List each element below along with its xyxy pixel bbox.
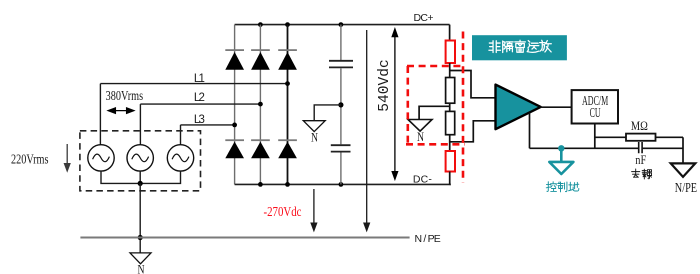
wire DC+ top rail [235,24,450,26]
svg-text:L2: L2 [194,92,205,104]
diode D1 top (cathode bar) [225,49,244,51]
svg-text:L1: L1 [194,73,205,85]
wire divider mid to ground N [419,106,450,119]
wire control ground bus [530,147,684,149]
wire neutral bus below sources [101,171,181,183]
resistor Rd2 (divider lower) [446,111,455,134]
svg-text:DC-: DC- [413,173,433,185]
diode D6 bottom (cathode bar) [278,139,297,141]
node dot cap midpoint [338,102,343,107]
wire cap midpoint to ground N [314,105,341,121]
op-amp U1 [496,85,541,130]
svg-text:DC+: DC+ [414,12,434,24]
node dot L1 to col3 [285,81,290,86]
dimension arrow 540Vdc double-headed [392,29,397,179]
diode D3 top (cathode bar) [278,49,297,51]
node dot DC- col2 [258,182,263,187]
node dot neutral at N/PE rail [138,235,143,240]
capacitor nF plates [639,142,642,153]
wire Rs1 to divider top [449,63,451,78]
svg-text:CU: CU [590,105,601,120]
ground N divider [408,120,432,132]
ground N at cap midpoint [303,121,325,132]
diode D5 bottom (cathode bar) [251,139,270,141]
wire to op-amp - input [450,121,496,142]
diode D3 top (triangle) [278,52,297,70]
svg-text:N: N [311,129,318,144]
wire row to MΩ resistor [595,136,626,138]
wire op-amp ground pin [529,113,531,149]
diode D4 bottom (triangle) [225,142,244,159]
node dot DC- cap column [339,182,344,187]
svg-text:N/PE: N/PE [675,180,697,195]
wire MΩ to right vertical [656,136,684,138]
wire bridge column 3 (black) [287,25,289,185]
svg-text:N / PE: N / PE [415,233,441,245]
node dot control ground (teal) [558,145,564,151]
wire DC- rail [235,183,451,185]
svg-text:nF: nF [635,152,646,167]
wire to op-amp + input [450,71,496,98]
node dot DC- col3 [285,182,290,187]
node dot neutral bus [138,181,143,186]
capacitor column upper wire (gray) [340,25,342,60]
resistor Rs2 (red, bottom sampling) [446,151,455,172]
capacitor C1 plates [329,61,353,68]
svg-text:540Vdc: 540Vdc [377,59,393,111]
capacitor column lower wire (gray) [340,153,342,185]
dashed source box [80,131,201,191]
AC source V1 [88,145,114,171]
node dot L3 to col1 [232,123,237,128]
wire Rs2 to DC- rail [450,172,451,185]
label 控制地 (teal, drawn glyphs) [546,182,579,192]
diode D5 bottom (triangle) [251,142,270,159]
ground symbol control ground (teal) [549,148,573,174]
node dot L2 to col2 [258,102,263,107]
wire below divider [449,135,451,151]
wire phase L1 [100,84,287,145]
red dashed highlight top edge [407,65,465,68]
arrow -270Vdc down [311,189,316,231]
svg-text:-270Vdc: -270Vdc [264,204,302,219]
wire phase L3 [181,125,235,145]
resistor MΩ (horizontal) [626,134,656,141]
wire bridge column 1 (gray) [234,25,236,185]
wire ADC down to control ground bus [594,124,596,149]
svg-text:380Vrms: 380Vrms [106,88,144,103]
label 非隔离运放 (white, drawn glyphs) [489,40,551,52]
red dashed highlight vertical right [462,32,465,183]
svg-text:MΩ: MΩ [631,118,648,133]
resistor Rs1 (red, top sampling) [446,41,455,64]
svg-text:N: N [417,129,424,144]
arrow 220Vrms down [65,144,70,171]
measurement line DC+ to N/PE with down arrow [364,30,369,231]
diode D4 bottom (cathode bar) [225,139,244,141]
ground N bottom left [130,253,151,264]
diode D2 top (triangle) [251,52,270,70]
node dot top rail col3 [285,22,290,27]
wire neutral down to N/PE rail [139,183,141,253]
svg-text:220Vrms: 220Vrms [11,151,49,166]
wire divider mid junction [449,103,451,111]
red dashed highlight bottom edge [406,143,465,146]
capacitor column middle wire (gray) [340,68,342,144]
capacitor C2 plates [331,145,351,151]
box ADC/MCU [572,90,618,123]
svg-text:N: N [138,262,145,274]
callout box 非隔离运放 (teal) [472,35,567,60]
resistor Rd1 (divider upper) [446,78,455,104]
wire phase L2 [140,104,260,145]
wire op-amp output [541,106,572,108]
diode D2 top (cathode bar) [251,49,270,51]
ground symbol N/PE right [671,163,696,177]
AC source V3 [167,145,193,171]
wire right vertical to N/PE ground [682,137,684,163]
diode D1 top (triangle) [225,52,244,70]
dimension arrow 380Vrms (double headed) [108,108,134,113]
red dashed highlight left edge [406,66,409,144]
node dot top rail col2 [258,22,263,27]
svg-text:L3: L3 [194,114,205,126]
AC source V2 [127,145,153,171]
wire DC+ elbow down to sampling resistor [449,25,451,41]
node dot top rail cap column [339,22,344,27]
wire bridge column 2 (gray) [259,25,261,185]
diode D6 bottom (triangle) [278,142,297,159]
wire N/PE rail (gray) [80,237,409,239]
label 去耦 (drawn glyphs) [632,169,652,179]
